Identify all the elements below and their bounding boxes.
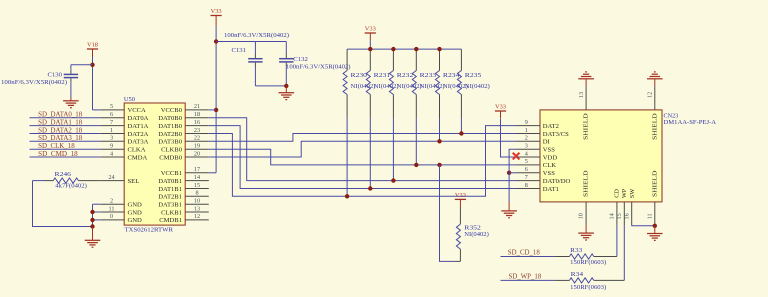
CN23 pin 16 SW — [631, 202, 633, 226]
svg-text:6: 6 — [525, 166, 528, 173]
svg-text:2: 2 — [525, 135, 528, 142]
wire VCCA from V18 — [93, 109, 101, 111]
resistor R232 — [392, 49, 394, 70]
wire DAT0B0 to DAT0/DO — [209, 118, 517, 181]
wire C130 branch — [71, 64, 93, 66]
node VSS junction — [507, 171, 511, 175]
svg-text:100nF/6.3V/X5R(0402): 100nF/6.3V/X5R(0402) — [224, 32, 289, 39]
U50 pin 3 DAT3A — [101, 140, 125, 142]
U50 pin 16 DAT1B0 — [185, 125, 209, 127]
svg-text:NI(0402): NI(0402) — [374, 83, 399, 90]
svg-text:14: 14 — [609, 213, 616, 219]
svg-text:18: 18 — [194, 111, 200, 118]
ground below pin 11 — [654, 226, 656, 234]
wire net SD_DATA2_18 — [30, 133, 101, 135]
CN23 pin 6 VSS — [517, 172, 541, 174]
svg-text:SD_CMD_18: SD_CMD_18 — [38, 151, 78, 158]
svg-text:1: 1 — [110, 127, 113, 134]
svg-text:0: 0 — [110, 213, 113, 220]
wire cap rail — [216, 41, 286, 43]
svg-text:20: 20 — [194, 150, 200, 157]
node R231 junction — [368, 186, 372, 190]
svg-text:11: 11 — [109, 205, 115, 212]
svg-text:1: 1 — [525, 127, 528, 134]
svg-text:NI(0402): NI(0402) — [397, 83, 422, 90]
node CLK R352 tap — [437, 163, 441, 167]
CN23 pin 2 DI — [517, 140, 541, 142]
svg-text:15: 15 — [194, 182, 200, 189]
svg-text:DAT1A: DAT1A — [128, 123, 149, 130]
wire VSS pin3 — [509, 149, 516, 173]
U50 pin 13 CLKB1 — [185, 211, 209, 213]
node R232 junction — [391, 178, 395, 182]
wire DAT3B0 to DAT3/CS — [209, 134, 517, 142]
U50 pin 1 DAT2A — [101, 133, 125, 135]
CN23 pin 12 SHIELD top — [654, 86, 656, 110]
svg-text:16: 16 — [194, 119, 200, 126]
capacitor C131 — [254, 42, 256, 55]
svg-text:C132: C132 — [293, 56, 308, 63]
op-amp U50 body — [124, 103, 185, 225]
svg-text:22: 22 — [194, 135, 200, 142]
U50 pin 17 VCCB1 — [185, 172, 209, 174]
svg-text:12: 12 — [194, 213, 200, 220]
svg-text:SD_DATA3_18: SD_DATA3_18 — [38, 135, 83, 142]
svg-text:3: 3 — [110, 135, 113, 142]
resistor R33 — [569, 254, 593, 259]
svg-text:100nF/6.3V/X5R(0402): 100nF/6.3V/X5R(0402) — [1, 79, 67, 86]
svg-text:WP: WP — [621, 188, 628, 198]
CN23 pin 10 SHIELD bottom — [585, 202, 587, 226]
svg-text:SHIELD: SHIELD — [651, 170, 658, 197]
wire net SD_DATA3_18 — [30, 140, 101, 142]
svg-text:CLK: CLK — [543, 162, 556, 169]
svg-text:23: 23 — [194, 127, 200, 134]
svg-text:DAT3B1: DAT3B1 — [158, 202, 182, 209]
svg-text:NI(0402): NI(0402) — [420, 83, 445, 90]
svg-text:17: 17 — [194, 166, 200, 173]
wire GND pins bus — [92, 204, 94, 226]
svg-text:VSS: VSS — [543, 147, 555, 154]
node V18/C130 junction — [90, 63, 94, 67]
svg-text:DAT0A: DAT0A — [128, 115, 149, 122]
node V33 VCCB0 junction — [214, 108, 218, 112]
svg-text:V33: V33 — [365, 25, 376, 32]
wire V33 main vertical — [215, 26, 217, 173]
U50 pin 14 DAT0B1 — [185, 180, 209, 182]
ground below VSS — [508, 202, 510, 211]
U50 pin 7 DAT1A — [101, 125, 125, 127]
U50 pin 11 GND — [101, 211, 125, 213]
node GND junctions — [90, 210, 94, 214]
svg-text:V33: V33 — [211, 8, 222, 15]
svg-text:24: 24 — [108, 174, 114, 181]
wire VSS to ground — [508, 173, 510, 202]
wire VCCB1 to V33 — [209, 172, 216, 174]
svg-text:R231: R231 — [374, 72, 391, 79]
node V33 cap junction — [214, 39, 218, 43]
wire net SD_WP_18 — [501, 279, 555, 281]
wire net SD_CD_18 — [501, 256, 555, 258]
svg-text:VCCA: VCCA — [128, 107, 147, 114]
U50 pin 0 GND — [101, 219, 125, 221]
CN23 pin 5 CLK — [517, 164, 541, 166]
svg-text:V33: V33 — [495, 103, 506, 110]
svg-text:DAT2B1: DAT2B1 — [158, 194, 182, 201]
svg-text:GND: GND — [128, 209, 143, 216]
no-ERC marker on VDD — [514, 154, 519, 159]
svg-text:7: 7 — [525, 174, 528, 181]
ground below U50 GND — [92, 227, 94, 241]
wire CLKB0 to CLK — [209, 149, 517, 165]
ground below pin 10 — [578, 232, 594, 234]
svg-text:5: 5 — [525, 158, 528, 165]
svg-text:DAT1: DAT1 — [543, 186, 559, 193]
svg-text:DAT2: DAT2 — [543, 123, 559, 130]
ground above pin 12 — [647, 78, 663, 80]
ground below C130 — [70, 98, 72, 101]
svg-text:SHIELD: SHIELD — [583, 113, 590, 140]
svg-text:4: 4 — [110, 150, 113, 157]
U50 pin 24 SEL — [101, 180, 125, 182]
ground below C132 — [285, 86, 287, 93]
CN23 pin 8 DAT1 — [517, 188, 541, 190]
svg-text:C130: C130 — [48, 72, 63, 79]
svg-text:SHIELD: SHIELD — [583, 170, 590, 197]
CN23 pin 14 CD — [616, 202, 618, 226]
svg-text:SHIELD: SHIELD — [651, 113, 658, 140]
svg-text:5: 5 — [110, 103, 113, 110]
U50 pin 23 DAT2B0 — [185, 133, 209, 135]
capacitor C132 — [285, 42, 287, 55]
svg-text:SD_CD_18: SD_CD_18 — [508, 250, 541, 257]
wire net SD_DATA1_18 — [30, 125, 101, 127]
U50 pin 19 CLKB0 — [185, 148, 209, 150]
wire SEL loop to GND — [33, 181, 93, 227]
resistor R352 — [456, 224, 460, 249]
svg-text:NI(0402): NI(0402) — [464, 231, 489, 238]
svg-text:4: 4 — [525, 150, 528, 157]
svg-text:V33: V33 — [455, 192, 466, 199]
resistor R34 — [569, 278, 593, 283]
CN23 pin 3 VSS — [517, 148, 541, 150]
svg-text:VSS: VSS — [543, 170, 555, 177]
U50 pin 20 CMDB0 — [185, 156, 209, 158]
U50 pin 18 DAT0B0 — [185, 117, 209, 119]
svg-text:13: 13 — [578, 92, 585, 98]
CN23 pin 7 DAT0/DO — [517, 180, 541, 182]
svg-text:DAT3/CS: DAT3/CS — [543, 131, 569, 138]
CN23 pin 9 DAT2 — [517, 125, 541, 127]
U50 pin 21 VCCB0 — [185, 109, 209, 111]
svg-text:DAT3A: DAT3A — [128, 139, 149, 146]
svg-text:11: 11 — [647, 213, 654, 219]
CN23 pin 4 VDD — [517, 156, 541, 158]
U50 pin 2 GND — [101, 203, 125, 205]
svg-text:V18: V18 — [87, 41, 98, 48]
svg-text:C131: C131 — [232, 47, 247, 54]
node R235 junction — [459, 131, 463, 135]
svg-text:R34: R34 — [571, 271, 585, 278]
svg-text:R33: R33 — [570, 247, 582, 254]
wire net SD_CLK_18 — [30, 148, 101, 150]
svg-text:NI(0402): NI(0402) — [351, 83, 376, 90]
svg-text:9: 9 — [525, 119, 528, 126]
svg-text:21: 21 — [194, 103, 200, 110]
power V33 to VDD — [501, 119, 517, 157]
svg-text:SD_CLK_18: SD_CLK_18 — [38, 143, 75, 150]
svg-text:9: 9 — [110, 143, 113, 150]
svg-text:SD_DATA0_18: SD_DATA0_18 — [38, 112, 83, 119]
resistor R234 — [439, 49, 441, 70]
resistor R235 — [460, 49, 462, 70]
svg-text:R235: R235 — [465, 72, 482, 79]
wire VCCB0 to V33 — [209, 109, 216, 111]
connector CN23 body — [540, 110, 662, 202]
svg-text:CLKB1: CLKB1 — [161, 209, 182, 216]
svg-text:GND: GND — [128, 202, 143, 209]
resistor R231 — [369, 49, 371, 70]
svg-text:DI: DI — [543, 139, 550, 146]
svg-text:100nF/6.3V/X5R(0402): 100nF/6.3V/X5R(0402) — [286, 63, 351, 70]
svg-text:TXS02612RTWR: TXS02612RTWR — [125, 226, 174, 233]
wire CD to R33 — [616, 225, 618, 256]
wire net SD_DATA0_18 — [30, 117, 101, 119]
svg-text:R232: R232 — [397, 72, 414, 79]
wire CLK to R352 — [440, 165, 456, 262]
svg-text:19: 19 — [194, 143, 200, 150]
U50 pin 8 DAT2B1 — [185, 195, 209, 197]
resistor R230 — [346, 49, 348, 70]
svg-text:2: 2 — [110, 198, 113, 205]
svg-text:150RF(0603): 150RF(0603) — [570, 259, 606, 266]
resistor R246 — [79, 180, 101, 182]
svg-text:6: 6 — [110, 111, 113, 118]
wire VSS pin6 — [509, 172, 516, 174]
svg-text:R230: R230 — [351, 72, 368, 79]
svg-text:14: 14 — [194, 174, 200, 181]
svg-text:DAT2B0: DAT2B0 — [158, 131, 183, 138]
svg-text:CD: CD — [614, 189, 621, 198]
svg-text:DM1AA-SF-PEJ-A: DM1AA-SF-PEJ-A — [664, 119, 717, 126]
svg-text:CMDA: CMDA — [128, 154, 148, 161]
svg-text:10: 10 — [194, 198, 200, 205]
wire net SD_CMD_18 — [30, 156, 101, 158]
CN23 pin 1 DAT3/CS — [517, 133, 541, 135]
svg-text:DAT0B0: DAT0B0 — [158, 115, 183, 122]
svg-text:13: 13 — [194, 205, 200, 212]
svg-text:12: 12 — [647, 92, 654, 98]
svg-text:SD_DATA2_18: SD_DATA2_18 — [38, 127, 83, 134]
svg-text:8: 8 — [525, 182, 528, 189]
svg-text:DAT1B1: DAT1B1 — [158, 186, 182, 193]
U50 pin 6 DAT0A — [101, 117, 125, 119]
ground above pin 13 — [578, 78, 594, 80]
capacitor C130 — [70, 65, 72, 70]
svg-text:NI(0402): NI(0402) — [465, 83, 490, 90]
svg-text:VCCB0: VCCB0 — [161, 107, 183, 114]
U50 pin 22 DAT3B0 — [185, 140, 209, 142]
U50 pin 15 DAT1B1 — [185, 188, 209, 190]
svg-text:CLKA: CLKA — [128, 147, 146, 154]
svg-text:CMDB1: CMDB1 — [159, 217, 182, 224]
svg-text:DAT3B0: DAT3B0 — [158, 139, 183, 146]
svg-text:SD_DATA1_18: SD_DATA1_18 — [38, 119, 83, 126]
svg-text:VDD: VDD — [543, 154, 558, 161]
svg-text:SW: SW — [629, 189, 636, 199]
CN23 pin 15 WP — [623, 202, 625, 226]
svg-text:10: 10 — [577, 213, 584, 219]
svg-text:CLKB0: CLKB0 — [161, 147, 183, 154]
svg-text:R233: R233 — [420, 72, 437, 79]
svg-text:R246: R246 — [55, 171, 72, 178]
U50 pin 12 CMDB1 — [185, 219, 209, 221]
wire SW to shield ground — [632, 224, 655, 226]
wire GND pin — [93, 219, 101, 221]
wire V18 vertical — [92, 56, 94, 110]
U50 pin 5 VCCA — [101, 109, 125, 111]
svg-text:VCCB1: VCCB1 — [161, 170, 182, 177]
svg-text:GND: GND — [128, 217, 143, 224]
svg-text:3: 3 — [525, 143, 528, 150]
U50 pin 10 DAT3B1 — [185, 203, 209, 205]
svg-text:DAT1B0: DAT1B0 — [158, 123, 183, 130]
svg-text:DAT2A: DAT2A — [128, 131, 149, 138]
wire CMDB0 to DI — [209, 141, 517, 157]
wire GND pin — [93, 203, 101, 205]
wire GND pin — [93, 211, 101, 213]
wire DAT1B0 to DAT1 — [209, 126, 517, 189]
svg-text:7: 7 — [110, 119, 113, 126]
node R234 junction — [437, 139, 441, 143]
svg-text:U50: U50 — [124, 96, 135, 103]
CN23 pin 11 SHIELD bottom — [654, 202, 656, 226]
wire caps bottom rail — [255, 85, 286, 87]
svg-text:CMDB0: CMDB0 — [159, 154, 182, 161]
wire resistor bank rail — [347, 48, 461, 50]
svg-text:4k7F(0402): 4k7F(0402) — [55, 183, 87, 190]
svg-text:15: 15 — [616, 213, 623, 219]
U50 pin 9 CLKA — [101, 148, 125, 150]
node R233 junction — [414, 163, 418, 167]
svg-text:SEL: SEL — [128, 178, 140, 185]
node R230 junction — [345, 194, 349, 198]
svg-text:16: 16 — [623, 213, 630, 219]
svg-text:DAT0B1: DAT0B1 — [158, 178, 182, 185]
svg-text:DAT0/DO: DAT0/DO — [543, 178, 571, 185]
node caps ground junction — [284, 84, 288, 88]
node pin 11 junction — [653, 224, 657, 228]
U50 pin 4 CMDA — [101, 156, 125, 158]
wire WP to R34 — [623, 225, 625, 280]
resistor R233 — [415, 49, 417, 70]
svg-text:150RF(0603): 150RF(0603) — [570, 284, 606, 291]
CN23 pin 13 SHIELD top — [585, 86, 587, 110]
svg-text:R352: R352 — [464, 224, 481, 231]
wire V33 stem to rail — [369, 40, 371, 49]
wire DAT2B0 to DAT2 — [209, 126, 517, 197]
svg-text:8: 8 — [195, 190, 198, 197]
svg-text:SD_WP_18: SD_WP_18 — [509, 273, 542, 280]
